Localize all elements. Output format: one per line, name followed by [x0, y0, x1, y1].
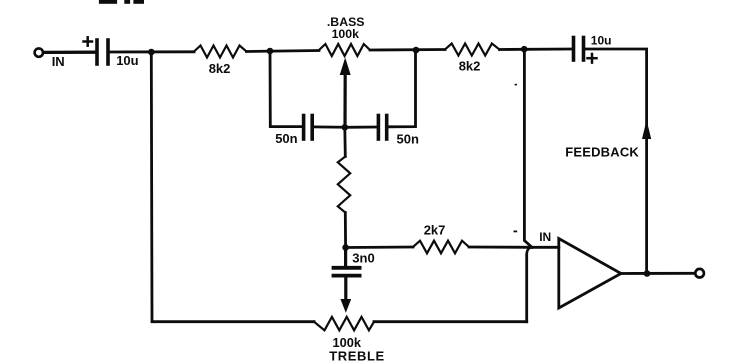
- resistor R1 8k2 (left): [194, 46, 247, 58]
- node: 50n center junction: [342, 124, 349, 131]
- potentiometer BASS 100k body: [319, 44, 370, 56]
- svg-text:IN: IN: [539, 230, 551, 244]
- wire tone junction to R4: [346, 246, 413, 249]
- svg-text:FEEDBACK: FEEDBACK: [565, 145, 639, 160]
- resistor R3 (middle vertical): [338, 127, 350, 247]
- node: input junction: [148, 49, 155, 56]
- capacitor C1 10u polarity +: [84, 37, 93, 45]
- input terminal: [35, 48, 43, 56]
- wire: left rail down: [150, 52, 153, 320]
- speck artifact near vertical wire: [515, 84, 517, 86]
- bass wiper arrow: [340, 58, 351, 128]
- resistor R2 8k2 (right): [445, 44, 500, 56]
- capacitor C4 polarity +: [588, 54, 597, 63]
- wire 50n right up to bass right junction: [389, 50, 416, 127]
- cropped caption text fragment: [99, 0, 144, 4]
- svg-text:IN: IN: [52, 54, 65, 69]
- node: bass left junction: [267, 48, 274, 55]
- wire BASS pot to R2: [370, 48, 445, 51]
- wire op-amp output to terminal: [621, 272, 695, 275]
- wire: bottom rail right: [374, 320, 527, 323]
- capacitor C5 3n0: [334, 248, 360, 302]
- wire: bass left junction down to 50n row: [270, 51, 302, 127]
- output terminal: [695, 269, 704, 278]
- capacitor C4 10u (output coupling): [574, 38, 584, 61]
- wire input terminal to C1: [44, 51, 96, 55]
- resistor R4 2k7: [413, 241, 469, 254]
- feedback arrow head: [642, 120, 651, 139]
- potentiometer TREBLE 100k body: [314, 317, 374, 330]
- wire: vertical from top junction with bend into input node: [524, 49, 532, 247]
- svg-text:10u: 10u: [591, 33, 612, 47]
- capacitor C2 50n (left): [304, 116, 313, 140]
- capacitor C3 50n (right): [378, 116, 386, 140]
- svg-text:100k: 100k: [332, 27, 360, 41]
- svg-text:50n: 50n: [397, 132, 419, 147]
- treble wiper arrow: [340, 299, 351, 313]
- svg-text:8k2: 8k2: [209, 61, 231, 76]
- svg-text:8k2: 8k2: [459, 59, 481, 74]
- wire R1 to BASS pot: [247, 51, 320, 52]
- node: bass right junction: [413, 47, 420, 54]
- wire R4 to op-amp input node: [469, 246, 531, 249]
- wire R2 to C4: [500, 48, 572, 51]
- node: op-amp feed junction: [521, 46, 528, 53]
- svg-text:3n0: 3n0: [352, 251, 374, 266]
- capacitor C1 10u (input coupling): [97, 40, 108, 64]
- svg-text:2k7: 2k7: [424, 223, 446, 238]
- svg-text:50n: 50n: [275, 131, 297, 146]
- wire into op-amp input: [531, 246, 559, 249]
- wire: jog down from input node to bottom rail: [527, 247, 531, 321]
- wire: bottom rail left: [152, 320, 314, 323]
- svg-text:TREBLE: TREBLE: [329, 349, 385, 363]
- wire center node to 50n right: [347, 126, 377, 129]
- node: tone junction (3n0/2k7): [342, 244, 349, 251]
- wire C1 to R1: [110, 50, 194, 53]
- wire C4 to feedback corner: [586, 49, 647, 274]
- wire 50n left to center node: [314, 126, 343, 129]
- svg-text:10u: 10u: [116, 53, 138, 68]
- node: output junction: [644, 270, 651, 277]
- op-amp U1: [559, 239, 621, 309]
- speck artifact near IN: [514, 231, 518, 233]
